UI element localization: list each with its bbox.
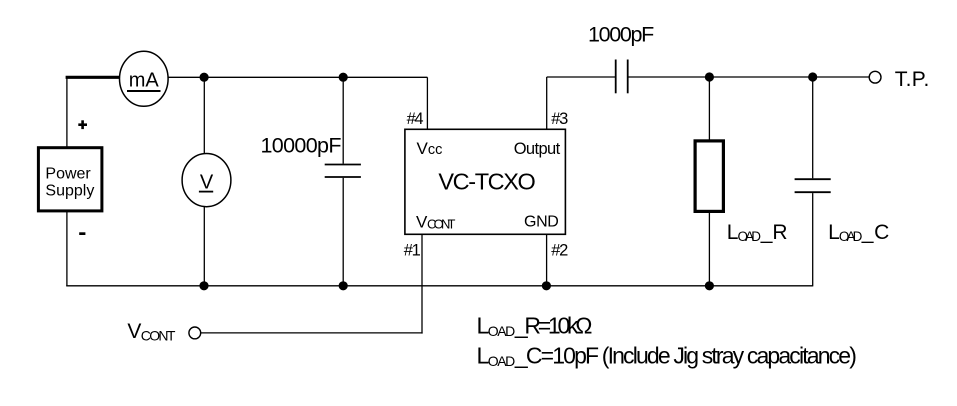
node: ground junction GND pin: [542, 281, 551, 290]
svg-text:10000pF: 10000pF: [261, 134, 342, 158]
svg-text:CONT: CONT: [427, 217, 456, 232]
node: junction load capacitor branch: [808, 72, 817, 81]
svg-text:1000pF: 1000pF: [588, 23, 654, 47]
svg-text:GND: GND: [524, 214, 559, 231]
wire: 1000pF to test point: [629, 76, 870, 78]
svg-text:VC-TCXO: VC-TCXO: [438, 169, 535, 195]
svg-text:OAD: OAD: [738, 229, 762, 244]
svg-text:CONT: CONT: [141, 328, 176, 344]
svg-text:Output: Output: [514, 140, 561, 158]
wire: thick lead from + corner to ammeter: [66, 76, 120, 79]
wire: pin #3 riser: [546, 77, 548, 129]
label: - terminal: [79, 232, 85, 235]
node: ground junction voltmeter: [199, 281, 208, 290]
svg-text:Supply: Supply: [45, 182, 94, 199]
svg-text:_R=10kΩ: _R=10kΩ: [514, 313, 593, 339]
wire: voltmeter down to ground rail: [203, 207, 205, 286]
terminal: Vcont open circle: [189, 327, 201, 339]
svg-text:_C: _C: [861, 221, 890, 244]
svg-text:#3: #3: [551, 110, 568, 128]
label: Load_C: [828, 221, 889, 244]
capacitor C3 Load_C: [795, 179, 831, 192]
svg-text:Power: Power: [45, 166, 91, 183]
IC U1 VC-TCXO: [405, 129, 566, 234]
wire: load capacitor to ground rail corner: [812, 193, 814, 286]
svg-text:#2: #2: [551, 242, 568, 260]
wire: pin #3 corner to 1000pF: [547, 76, 615, 78]
wire: ground rail: [66, 285, 813, 287]
label: Load_R value: [477, 313, 593, 340]
svg-text:V: V: [127, 320, 141, 343]
svg-text:_R: _R: [760, 221, 788, 244]
wire: pin #4 drop: [426, 77, 428, 129]
wire: power supply + terminal vertical: [66, 77, 68, 147]
wire: junction down to voltmeter: [203, 77, 205, 154]
ammeter U-mA: [120, 51, 169, 106]
node: ground junction 10000pF: [339, 281, 348, 290]
node: ground junction load resistor: [705, 281, 714, 290]
label: Load_R: [727, 221, 788, 244]
power supply PS1: [38, 148, 102, 211]
wire: pin #2 GND drop: [546, 234, 548, 285]
resistor R1 Load_R: [695, 141, 723, 212]
label: + terminal: [78, 120, 87, 129]
wire: ammeter to pin #4 corner: [168, 76, 427, 78]
svg-text:T.P.: T.P.: [895, 68, 930, 91]
svg-text:OAD: OAD: [839, 229, 863, 244]
terminal: T.P. open circle: [869, 71, 881, 83]
svg-text:_C=10pF (Include Jig stray cap: _C=10pF (Include Jig stray capacitance): [514, 343, 857, 369]
node: junction voltmeter branch: [200, 73, 209, 82]
wire: rail down to load resistor: [708, 77, 710, 140]
capacitor C2 1000pF: [588, 23, 654, 94]
voltmeter U-V: [182, 154, 231, 207]
wire: load resistor to ground rail: [708, 212, 710, 286]
capacitor C1 10000pF: [261, 77, 361, 285]
wire: pin #1 Vcont drop: [421, 234, 423, 333]
svg-text:mA: mA: [129, 69, 160, 91]
wire: power supply - terminal vertical: [66, 211, 68, 286]
node: junction 10000pF branch: [339, 73, 348, 82]
wire: rail down to load capacitor: [812, 77, 814, 178]
svg-text:OAD: OAD: [488, 353, 516, 369]
wire: Vcont terminal to pin #1: [201, 332, 423, 334]
svg-text:#4: #4: [407, 110, 424, 128]
node: junction load resistor branch: [705, 72, 714, 81]
svg-text:V: V: [200, 172, 214, 194]
label: Load_C value: [477, 343, 857, 370]
svg-text:Vcc: Vcc: [417, 139, 443, 158]
svg-text:#1: #1: [404, 242, 421, 260]
svg-text:OAD: OAD: [488, 323, 516, 339]
